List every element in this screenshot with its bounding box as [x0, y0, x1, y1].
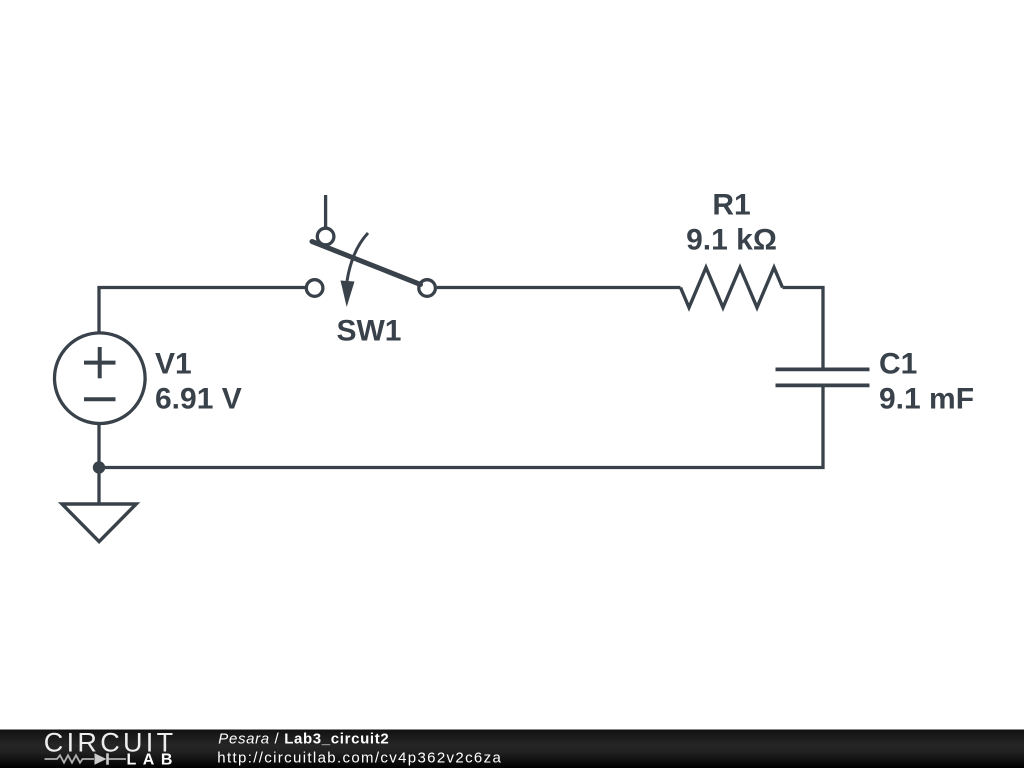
wire from V1 positive terminal up and right to switch left terminal: [99, 288, 305, 333]
switch top terminal circle: [317, 228, 334, 245]
wire from capacitor C1 bottom down and left to ground node: [99, 385, 823, 467]
svg-text:C1: C1: [879, 348, 917, 381]
voltage source V1: [55, 333, 146, 424]
svg-text:SW1: SW1: [336, 315, 401, 348]
capacitor C1 top plate: [776, 367, 870, 371]
V1 circle body: [55, 333, 146, 424]
label C1: [879, 348, 917, 381]
ground triangle: [62, 504, 136, 542]
label R1 value 9.1 kOhm: [686, 223, 777, 256]
node junction dot at ground net: [93, 461, 105, 473]
label V1: [155, 348, 192, 381]
CircuitLab logo resistor-diode squiggle: [45, 753, 127, 764]
wire from V1 negative terminal down to ground node: [97, 424, 100, 468]
capacitor C1 bottom plate: [776, 383, 870, 387]
switch left terminal circle: [306, 280, 323, 297]
svg-text:V1: V1: [155, 348, 192, 381]
switch action arc: [347, 233, 368, 281]
CircuitLab logo wordmark LAB: [127, 752, 179, 768]
switch right terminal circle: [419, 280, 436, 297]
wire from resistor R1 right end, corner down to capacitor C1 top: [783, 288, 824, 371]
V1 minus sign: [84, 397, 116, 401]
svg-text:9.1 mF: 9.1 mF: [879, 382, 974, 415]
switch blade: [312, 242, 421, 285]
label R1: [712, 188, 750, 221]
switch arrow head: [341, 281, 355, 308]
footer bar: [0, 730, 1024, 768]
ground symbol: [62, 468, 136, 542]
resistor R1: [681, 268, 783, 308]
svg-text:Pesara / Lab3_circuit2: Pesara / Lab3_circuit2: [218, 731, 389, 748]
svg-text:6.91 V: 6.91 V: [155, 383, 242, 416]
label C1 value 9.1 mF: [879, 382, 974, 415]
svg-text:R1: R1: [712, 188, 750, 221]
wire from switch right terminal to resistor R1: [437, 286, 681, 289]
label V1 value 6.91 V: [155, 383, 242, 416]
footer url line: [217, 749, 502, 766]
footer title line: Pesara / Lab3_circuit2: [218, 731, 389, 748]
wire stub above switch top terminal: [324, 195, 327, 227]
svg-text:http://circuitlab.com/cv4p362v: http://circuitlab.com/cv4p362v2c6za: [217, 749, 502, 766]
switch SW1: [306, 195, 435, 348]
label SW1: [336, 315, 401, 348]
ground stem wire: [97, 468, 100, 505]
V1 plus sign: [84, 347, 116, 378]
capacitor C1: [776, 369, 870, 385]
svg-text:9.1 kΩ: 9.1 kΩ: [686, 223, 777, 256]
CircuitLab logo wordmark CIRCUIT: [44, 727, 177, 757]
svg-text:LAB: LAB: [127, 752, 179, 768]
